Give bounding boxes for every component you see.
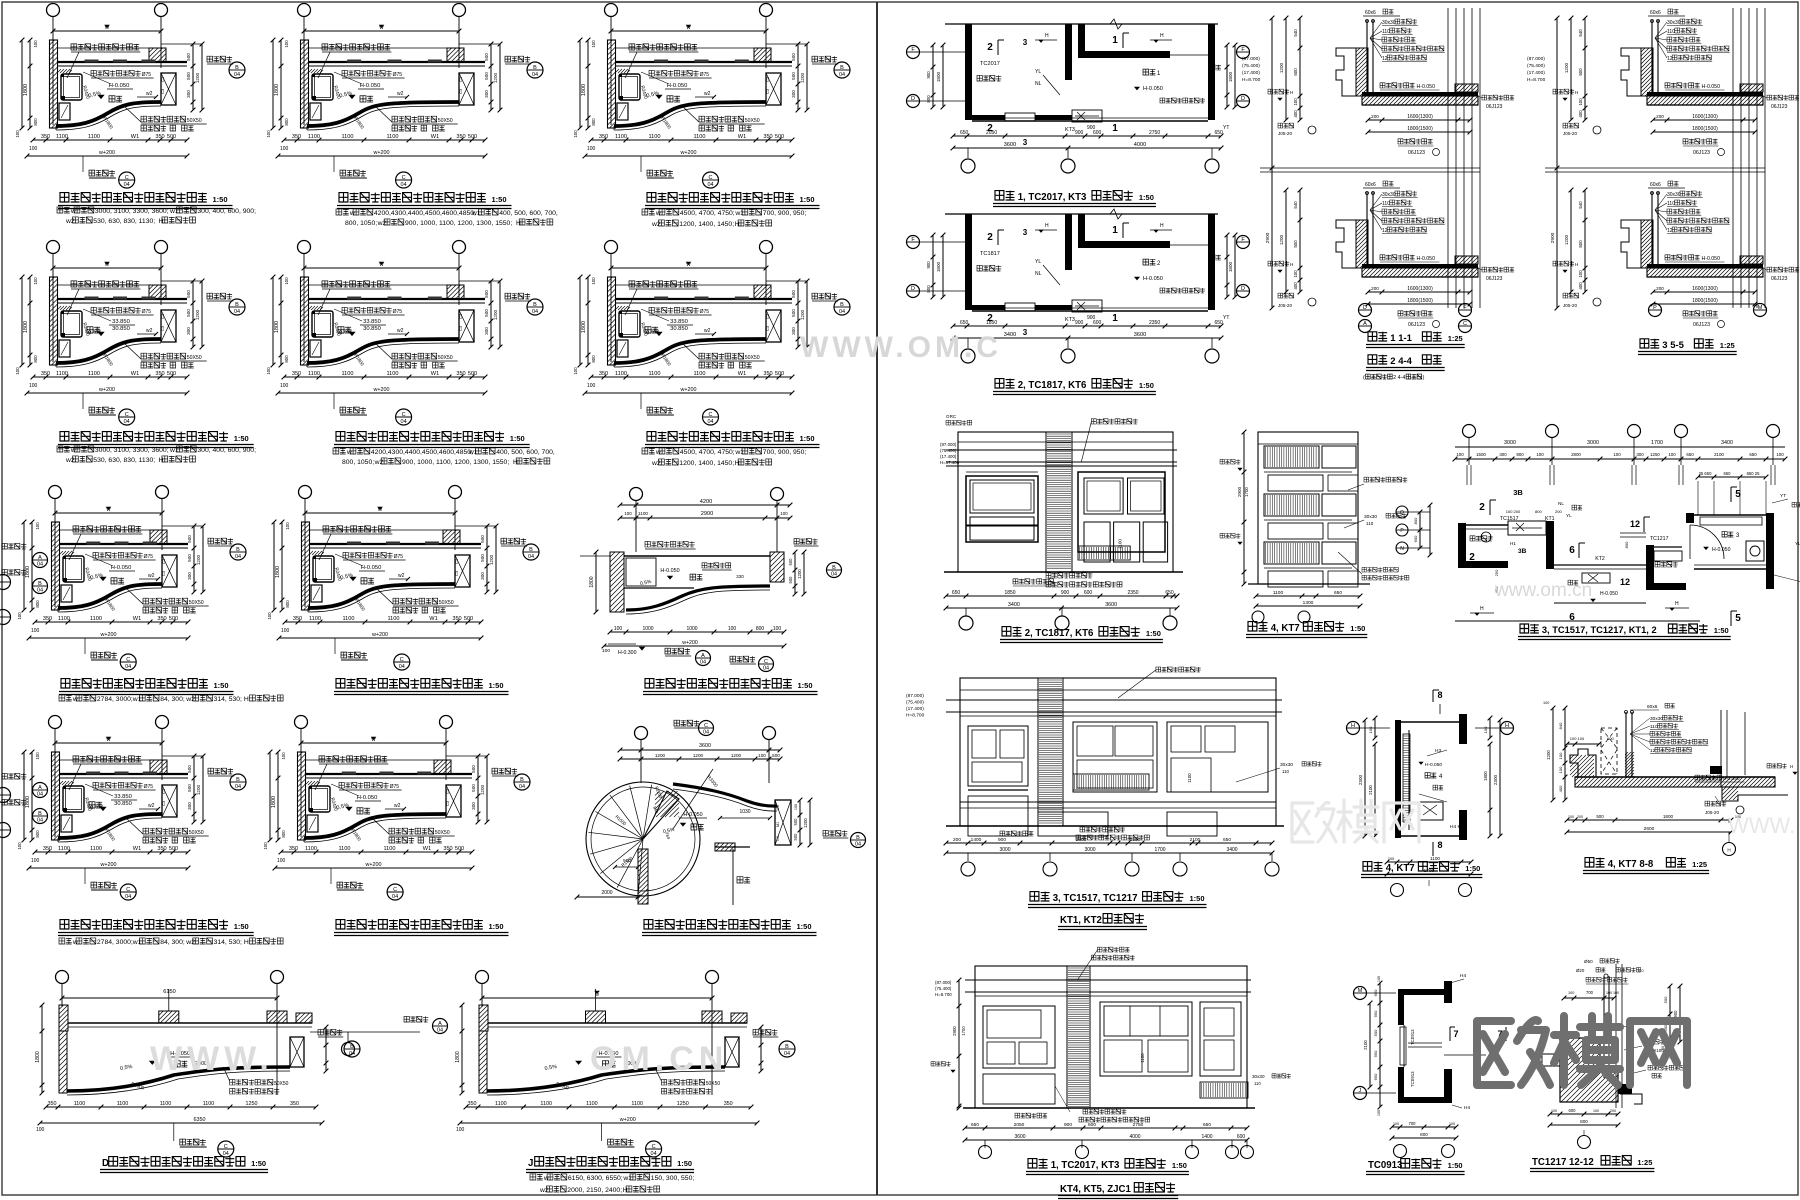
- svg-text:w+200: w+200: [364, 862, 381, 868]
- svg-text:300: 300: [484, 327, 489, 335]
- svg-text:100: 100: [1543, 701, 1549, 705]
- svg-text:B: B: [235, 65, 239, 71]
- svg-text:(17.400): (17.400): [1527, 70, 1545, 76]
- svg-text:w: w: [346, 449, 352, 456]
- svg-text:KT1, KT2: KT1, KT2: [1060, 915, 1102, 926]
- svg-text:100: 100: [614, 626, 623, 632]
- svg-text:1700: 1700: [1651, 440, 1663, 446]
- svg-text:800: 800: [33, 118, 38, 126]
- svg-text:W1: W1: [738, 371, 746, 377]
- svg-text:H: H: [1351, 723, 1355, 729]
- svg-text:4, KT7: 4, KT7: [1386, 863, 1415, 874]
- svg-text:3400: 3400: [1004, 332, 1016, 338]
- svg-text:A: A: [38, 785, 42, 791]
- svg-text:Ø75: Ø75: [144, 784, 154, 790]
- svg-text:84, 300;: 84, 300;: [160, 939, 185, 946]
- svg-text:1200: 1200: [489, 554, 494, 565]
- svg-text:100: 100: [285, 522, 290, 530]
- svg-text:400, 500, 600, 700,: 400, 500, 600, 700,: [496, 449, 555, 456]
- svg-text:30x30: 30x30: [1252, 1074, 1265, 1079]
- svg-text:100: 100: [280, 383, 289, 389]
- svg-text:06J123: 06J123: [1771, 104, 1788, 110]
- svg-text:150, 300, 550;: 150, 300, 550;: [651, 1175, 695, 1182]
- svg-text:200: 200: [1656, 286, 1664, 291]
- svg-text:100: 100: [35, 522, 40, 530]
- svg-text:6: 6: [1569, 545, 1575, 556]
- svg-text:1250: 1250: [1130, 837, 1141, 843]
- svg-text:1200: 1200: [797, 569, 802, 579]
- svg-text:200: 200: [1577, 815, 1583, 819]
- svg-text:1600(1300): 1600(1300): [1692, 114, 1718, 120]
- svg-text:600: 600: [1569, 1108, 1577, 1113]
- svg-text:2: 2: [987, 42, 993, 53]
- svg-text:2: 2: [1479, 502, 1485, 513]
- svg-text:3600: 3600: [1014, 1134, 1025, 1140]
- svg-text:30x30: 30x30: [1280, 762, 1293, 768]
- svg-text:350: 350: [155, 134, 164, 140]
- svg-text:1100: 1100: [495, 1101, 507, 1107]
- svg-text:540: 540: [1578, 29, 1583, 37]
- svg-text:400: 400: [1578, 110, 1583, 118]
- svg-text:1800: 1800: [1228, 71, 1233, 82]
- svg-text:B: B: [236, 547, 240, 553]
- svg-text:1100: 1100: [341, 134, 353, 140]
- svg-text:04: 04: [528, 554, 534, 560]
- svg-text:TC0913: TC0913: [1410, 1071, 1415, 1087]
- svg-text:1:50: 1:50: [1139, 381, 1154, 390]
- svg-text:B: B: [856, 835, 860, 841]
- svg-text:100: 100: [1393, 1122, 1399, 1126]
- svg-text:1200: 1200: [1564, 234, 1569, 245]
- svg-text:100: 100: [1568, 991, 1574, 995]
- svg-text:w: w: [371, 737, 376, 743]
- svg-text:1:50: 1:50: [1350, 624, 1365, 633]
- svg-text:J05-20: J05-20: [1278, 131, 1292, 136]
- svg-text:J05-20: J05-20: [1563, 131, 1577, 136]
- svg-text:w2: w2: [539, 1187, 549, 1194]
- svg-text:650: 650: [1215, 130, 1224, 136]
- svg-text:w+200: w+200: [98, 150, 115, 156]
- svg-text:400: 400: [1578, 282, 1583, 290]
- svg-text:8: 8: [1437, 840, 1442, 850]
- svg-text:1300: 1300: [1303, 600, 1314, 606]
- svg-text:04: 04: [519, 784, 525, 790]
- svg-text:w: w: [379, 25, 384, 31]
- svg-text:w: w: [655, 210, 661, 217]
- svg-text:1100: 1100: [586, 1101, 598, 1107]
- svg-text:1500: 1500: [1476, 452, 1486, 457]
- svg-text:1250: 1250: [677, 1101, 689, 1107]
- svg-text:M: M: [1758, 305, 1763, 311]
- svg-text:4000: 4000: [1129, 1134, 1140, 1140]
- svg-text:1800: 1800: [1483, 771, 1488, 781]
- svg-text:100: 100: [587, 146, 596, 152]
- svg-text:100: 100: [36, 1127, 45, 1133]
- svg-text:3B: 3B: [1513, 488, 1523, 497]
- svg-text:04: 04: [124, 182, 130, 188]
- svg-text:4200: 4200: [700, 499, 712, 505]
- svg-text:800: 800: [284, 118, 289, 126]
- svg-text:H=8.700: H=8.700: [1242, 77, 1261, 83]
- svg-text:3: 3: [1023, 138, 1028, 147]
- svg-text:3400: 3400: [1226, 847, 1237, 853]
- svg-text:500: 500: [480, 535, 485, 543]
- svg-text:1100: 1100: [648, 134, 660, 140]
- svg-text:500: 500: [1578, 240, 1583, 248]
- svg-text:1100: 1100: [386, 134, 398, 140]
- svg-text:650: 650: [1724, 471, 1732, 476]
- svg-text:H: H: [1505, 723, 1509, 729]
- svg-text:350: 350: [155, 371, 164, 377]
- svg-text:D: D: [1241, 286, 1245, 292]
- svg-text:700, 900, 950;: 700, 900, 950;: [763, 210, 807, 217]
- svg-text:1100: 1100: [1430, 856, 1440, 861]
- svg-text:50X50: 50X50: [438, 355, 453, 361]
- svg-text:6350: 6350: [194, 1117, 206, 1123]
- svg-text:350: 350: [292, 371, 301, 377]
- svg-text:1800: 1800: [23, 84, 29, 96]
- svg-text:(87.000): (87.000): [940, 442, 957, 447]
- svg-text:500: 500: [471, 765, 476, 773]
- svg-text:04: 04: [125, 664, 131, 670]
- svg-text:P: P: [1653, 305, 1657, 311]
- svg-text:4, KT7: 4, KT7: [1271, 623, 1300, 634]
- svg-text:540: 540: [1293, 201, 1298, 209]
- svg-text:w2: w2: [146, 91, 153, 97]
- svg-text:4200,4300,4400,4500,4600,4850;: 4200,4300,4400,4500,4600,4850;: [374, 210, 476, 217]
- svg-text:(87.000): (87.000): [1527, 56, 1545, 62]
- svg-text:650: 650: [1373, 1073, 1378, 1080]
- svg-text:GRC: GRC: [946, 414, 957, 419]
- svg-text:1:50: 1:50: [800, 195, 815, 204]
- svg-text:1800: 1800: [25, 566, 31, 578]
- svg-text:04: 04: [125, 894, 131, 900]
- svg-text:1800: 1800: [271, 796, 277, 808]
- svg-text:33.850: 33.850: [363, 319, 381, 325]
- svg-text:100: 100: [263, 842, 268, 850]
- svg-text:w+200: w+200: [371, 632, 388, 638]
- svg-text:w2: w2: [65, 457, 75, 464]
- svg-text:C: C: [125, 175, 129, 181]
- svg-text:1100: 1100: [1187, 773, 1192, 783]
- svg-text:900, 1000, 1100, 1200, 1300, 1: 900, 1000, 1100, 1200, 1300, 1550;: [402, 459, 509, 466]
- svg-text:4500, 4700, 4750;: 4500, 4700, 4750;: [680, 210, 735, 217]
- svg-text:2784, 3000;: 2784, 3000;: [97, 939, 133, 946]
- svg-text:w1: w1: [132, 939, 142, 946]
- svg-text:500: 500: [480, 554, 485, 562]
- svg-text:500: 500: [775, 371, 784, 377]
- svg-text:w1: w1: [471, 210, 481, 217]
- svg-text:3600: 3600: [1004, 142, 1016, 148]
- svg-text:04: 04: [437, 1028, 443, 1034]
- svg-text:w2: w2: [394, 803, 401, 809]
- svg-text:314, 530; H: 314, 530; H: [214, 696, 249, 703]
- svg-text:C: C: [709, 175, 713, 181]
- svg-text:1200: 1200: [196, 784, 201, 795]
- svg-text:2900: 2900: [701, 511, 713, 517]
- svg-text:100: 100: [602, 648, 610, 654]
- svg-text:w: w: [543, 1175, 549, 1182]
- svg-text:1700: 1700: [1244, 487, 1249, 497]
- svg-text:H: H: [735, 221, 740, 228]
- svg-text:1200: 1200: [731, 753, 742, 758]
- svg-text:C3: C3: [445, 788, 450, 794]
- svg-text:B: B: [840, 65, 844, 71]
- svg-text:04: 04: [707, 182, 713, 188]
- svg-text:900: 900: [926, 71, 931, 79]
- svg-text:1200, 1400, 1450;: 1200, 1400, 1450;: [679, 460, 734, 467]
- svg-text:B: B: [840, 302, 844, 308]
- svg-text:1800(1500): 1800(1500): [1407, 298, 1433, 304]
- svg-text:H1: H1: [1510, 541, 1516, 546]
- svg-text:1600(1300): 1600(1300): [1407, 286, 1433, 292]
- svg-text:33.850: 33.850: [114, 794, 132, 800]
- svg-text:600: 600: [1093, 320, 1102, 326]
- svg-text:350: 350: [452, 616, 461, 622]
- svg-text:1:50: 1:50: [214, 681, 229, 690]
- svg-text:2, TC1817, KT6: 2, TC1817, KT6: [1018, 380, 1087, 391]
- svg-text:1100: 1100: [90, 616, 102, 622]
- svg-text:800: 800: [1420, 1132, 1428, 1137]
- svg-text:YL: YL: [1795, 541, 1800, 546]
- svg-text:w+200: w+200: [99, 632, 116, 638]
- svg-text:1100: 1100: [383, 846, 395, 852]
- svg-text:2050: 2050: [986, 130, 997, 136]
- svg-text:1:50: 1:50: [800, 434, 815, 443]
- svg-text:1:50: 1:50: [1714, 626, 1729, 635]
- svg-text:C3: C3: [776, 836, 780, 841]
- svg-text:1:50: 1:50: [1465, 864, 1480, 873]
- svg-text:1, TC2017, KT3: 1, TC2017, KT3: [1018, 192, 1087, 203]
- svg-text:C3: C3: [160, 88, 165, 94]
- svg-text:C3: C3: [161, 788, 166, 794]
- svg-text:2 4-4: 2 4-4: [1393, 375, 1405, 381]
- svg-text:04: 04: [839, 309, 845, 315]
- svg-text:500: 500: [793, 833, 798, 841]
- svg-text:1200: 1200: [800, 309, 805, 320]
- svg-text:100: 100: [773, 626, 782, 632]
- svg-text:950: 950: [1373, 1050, 1378, 1057]
- svg-text:04: 04: [831, 572, 837, 578]
- svg-text:100: 100: [1536, 452, 1544, 457]
- svg-text:H: H: [623, 1187, 628, 1194]
- svg-text:H-0.050: H-0.050: [1417, 256, 1436, 262]
- svg-text:TC0913: TC0913: [1410, 1029, 1415, 1045]
- svg-text:100: 100: [1377, 976, 1381, 982]
- svg-text:w1: w1: [734, 210, 744, 217]
- svg-text:500: 500: [186, 290, 191, 298]
- svg-text:100: 100: [284, 40, 289, 48]
- svg-text:1800: 1800: [936, 261, 941, 272]
- svg-text:30.850: 30.850: [112, 326, 130, 332]
- svg-text:w: w: [72, 696, 78, 703]
- svg-text:12: 12: [1620, 577, 1630, 587]
- svg-text:TC1217: TC1217: [1650, 536, 1669, 542]
- svg-text:w+200: w+200: [682, 640, 698, 646]
- svg-text:500: 500: [484, 309, 489, 317]
- svg-text:4500, 4700, 4750;: 4500, 4700, 4750;: [680, 449, 735, 456]
- svg-text:C3: C3: [161, 570, 166, 576]
- svg-text:H: H: [1575, 262, 1578, 267]
- svg-text:300: 300: [791, 327, 796, 335]
- svg-text:2100: 2100: [1368, 785, 1373, 795]
- svg-text:1: 1: [1112, 225, 1118, 236]
- svg-text:H: H: [159, 218, 164, 225]
- svg-text:C: C: [764, 659, 768, 665]
- svg-text:500: 500: [187, 554, 192, 562]
- svg-text:w1: w1: [169, 447, 179, 454]
- svg-text:500: 500: [793, 818, 798, 826]
- svg-text:1:50: 1:50: [1146, 629, 1161, 638]
- svg-text:5: 5: [1735, 613, 1741, 624]
- svg-text:100: 100: [591, 277, 596, 285]
- svg-text:w2: w2: [397, 328, 404, 334]
- svg-text:50X50: 50X50: [187, 118, 202, 124]
- svg-text:60x6: 60x6: [1365, 182, 1376, 188]
- svg-text:(87.000): (87.000): [1242, 56, 1260, 62]
- svg-text:w: w: [104, 25, 109, 31]
- svg-text:C3: C3: [765, 325, 770, 331]
- svg-text:H-0.050: H-0.050: [1723, 776, 1740, 782]
- svg-text:H: H: [735, 460, 740, 467]
- svg-text:2900: 2900: [1550, 232, 1556, 243]
- svg-text:12: 12: [1667, 228, 1673, 234]
- svg-text:A: A: [38, 555, 42, 561]
- svg-text:500: 500: [455, 846, 464, 852]
- svg-text:1100: 1100: [308, 371, 320, 377]
- svg-text:1100: 1100: [341, 371, 353, 377]
- svg-text:C: C: [126, 887, 130, 893]
- svg-text:1100: 1100: [693, 134, 705, 140]
- svg-text:H-0.050: H-0.050: [357, 795, 378, 801]
- svg-text:110: 110: [1667, 201, 1675, 207]
- svg-text:1800: 1800: [581, 321, 587, 333]
- svg-text:D: D: [911, 286, 915, 292]
- svg-text:800, 1050;: 800, 1050;: [342, 459, 374, 466]
- svg-text:Ø20: Ø20: [1576, 968, 1585, 973]
- svg-text:100: 100: [1558, 766, 1563, 773]
- svg-text:1200: 1200: [493, 72, 498, 83]
- svg-text:Ø75: Ø75: [394, 554, 404, 560]
- svg-text:500: 500: [187, 784, 192, 792]
- svg-text:650: 650: [1686, 452, 1694, 457]
- svg-text:YT: YT: [1780, 493, 1786, 499]
- svg-text:C: C: [402, 175, 406, 181]
- svg-text:w2: w2: [185, 939, 195, 946]
- svg-text:1100: 1100: [386, 371, 398, 377]
- svg-text:3600: 3600: [1134, 332, 1146, 338]
- svg-text:1800(1500): 1800(1500): [1407, 126, 1433, 132]
- svg-text:H4 KT7: H4 KT7: [1450, 824, 1467, 830]
- svg-text:H: H: [1045, 223, 1049, 229]
- svg-text:04: 04: [703, 730, 709, 736]
- svg-text:C: C: [125, 412, 129, 418]
- svg-text:100: 100: [29, 383, 38, 389]
- svg-text:C: C: [126, 657, 130, 663]
- svg-text:1100: 1100: [88, 134, 100, 140]
- svg-text:2000, 2150, 2400;: 2000, 2150, 2400;: [567, 1187, 622, 1194]
- svg-text:KT3: KT3: [1065, 127, 1075, 133]
- svg-text:500: 500: [471, 784, 476, 792]
- svg-text:350: 350: [724, 1101, 733, 1107]
- svg-text:W1: W1: [429, 616, 437, 622]
- svg-text:2900: 2900: [1237, 486, 1242, 497]
- svg-text:(17.400): (17.400): [1242, 70, 1260, 76]
- svg-text:J05-20: J05-20: [1705, 810, 1719, 815]
- svg-text:D: D: [102, 1158, 109, 1169]
- svg-text:J05-20: J05-20: [1563, 303, 1577, 308]
- svg-text:B: B: [236, 777, 240, 783]
- svg-text:300: 300: [480, 572, 485, 580]
- svg-text:C3: C3: [454, 558, 459, 564]
- svg-text:100: 100: [456, 1127, 465, 1133]
- svg-text:w+200: w+200: [679, 150, 696, 156]
- svg-text:800: 800: [33, 355, 38, 363]
- svg-text:w: w: [104, 262, 109, 268]
- svg-text:H-0.050: H-0.050: [667, 83, 688, 89]
- svg-text:1100: 1100: [638, 511, 648, 516]
- svg-text:2750: 2750: [1149, 130, 1160, 136]
- svg-text:1600(1300): 1600(1300): [1692, 286, 1718, 292]
- svg-text:25 650: 25 650: [1699, 471, 1712, 476]
- svg-text:2000: 2000: [601, 890, 612, 896]
- svg-text:350: 350: [157, 846, 166, 852]
- svg-text:(75.400): (75.400): [906, 700, 924, 706]
- svg-text:C3: C3: [458, 313, 463, 319]
- svg-text:600: 600: [1413, 535, 1418, 542]
- svg-text:1250: 1250: [1650, 452, 1660, 457]
- svg-text:600: 600: [1607, 736, 1614, 741]
- svg-text:60x6: 60x6: [1365, 10, 1376, 16]
- svg-text:(87.000): (87.000): [935, 980, 952, 985]
- svg-text:950: 950: [1373, 1010, 1378, 1017]
- svg-text:J05-20: J05-20: [1278, 303, 1292, 308]
- svg-text:2900: 2900: [952, 1026, 957, 1036]
- svg-text:(17.400): (17.400): [940, 454, 957, 459]
- svg-text:100: 100: [1578, 98, 1583, 106]
- svg-text:100: 100: [573, 130, 578, 138]
- svg-text:650 25: 650 25: [1747, 471, 1760, 476]
- svg-text:2050: 2050: [1014, 1122, 1025, 1128]
- svg-text:H: H: [1290, 90, 1293, 95]
- svg-text:WWW.: WWW.: [150, 1040, 274, 1078]
- svg-text:1100: 1100: [648, 371, 660, 377]
- svg-text:1200: 1200: [195, 72, 200, 83]
- svg-text:2, TC1817, KT6: 2, TC1817, KT6: [1025, 628, 1094, 639]
- svg-text:900: 900: [1064, 1122, 1072, 1128]
- svg-text:W1: W1: [423, 846, 431, 852]
- svg-text:(87.000): (87.000): [906, 693, 924, 699]
- svg-text:500: 500: [186, 309, 191, 317]
- svg-text:500: 500: [772, 753, 780, 758]
- svg-text:B: B: [520, 777, 524, 783]
- svg-text:C3: C3: [765, 88, 770, 94]
- svg-text:50X50: 50X50: [435, 830, 450, 836]
- svg-text:H: H: [1727, 848, 1730, 853]
- svg-text:1:50: 1:50: [251, 1159, 266, 1168]
- svg-text:C3: C3: [458, 88, 463, 94]
- svg-text:Ø75: Ø75: [390, 784, 400, 790]
- svg-text:(: (: [1363, 375, 1365, 381]
- svg-text:1800: 1800: [25, 796, 31, 808]
- svg-text:100 100: 100 100: [1570, 736, 1585, 741]
- svg-text:1: 1: [1112, 123, 1118, 134]
- svg-text:350: 350: [43, 846, 52, 852]
- svg-text:100: 100: [31, 628, 40, 634]
- svg-text:100: 100: [284, 277, 289, 285]
- svg-text:NL: NL: [1035, 81, 1042, 87]
- svg-text:100: 100: [1293, 270, 1298, 278]
